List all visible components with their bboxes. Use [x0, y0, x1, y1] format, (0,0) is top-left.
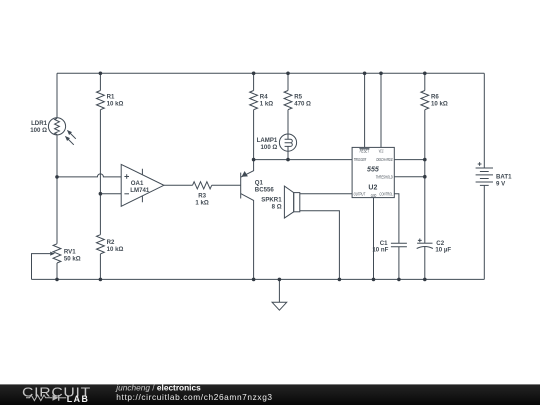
- speaker SPKR1: [261, 186, 300, 218]
- wire R5 bottom to LAMP1: [287, 110, 289, 134]
- svg-text:Q1: Q1: [255, 180, 264, 187]
- wire 555 VCC to top rail: [380, 73, 382, 147]
- svg-text:100 Ω: 100 Ω: [261, 144, 278, 151]
- potentiometer RV1: [50, 244, 81, 263]
- svg-text:1 kΩ: 1 kΩ: [195, 200, 208, 207]
- wire 555 RESET to top rail: [364, 73, 366, 147]
- wire 555 OUTPUT to speaker: [300, 193, 352, 195]
- wire bottom ground rail: [32, 278, 485, 280]
- wire R6 top stub: [424, 73, 426, 90]
- wire R2 bottom stub: [99, 254, 101, 280]
- svg-text:10 kΩ: 10 kΩ: [431, 101, 448, 108]
- svg-text:RV1: RV1: [64, 248, 76, 255]
- svg-text:50 kΩ: 50 kΩ: [64, 255, 81, 262]
- svg-text:LDR1: LDR1: [31, 120, 48, 127]
- wire speaker return to bottom rail: [300, 211, 340, 280]
- svg-text:8 Ω: 8 Ω: [272, 204, 282, 211]
- svg-text:BAT1: BAT1: [496, 173, 512, 180]
- wire 555 DISCHARGE to R6 node: [394, 159, 425, 161]
- svg-text:9 V: 9 V: [496, 180, 506, 187]
- svg-text:LM741: LM741: [130, 187, 150, 194]
- svg-text:R4: R4: [260, 94, 268, 101]
- capacitor C1: [372, 240, 407, 254]
- lamp LAMP1: [257, 134, 297, 151]
- wire 555 CONTROL to C1: [394, 194, 399, 244]
- svg-text:DISCHARGE: DISCHARGE: [376, 157, 393, 162]
- svg-text:THRESHOLD: THRESHOLD: [376, 174, 394, 179]
- CircuitLab logo: [22, 384, 91, 404]
- svg-text:LAMP1: LAMP1: [257, 137, 278, 144]
- resistor R1: [97, 91, 124, 110]
- wire LDR1 top: [56, 73, 58, 117]
- capacitor C2 (polarized): [417, 239, 452, 254]
- svg-text:LAB: LAB: [67, 394, 90, 404]
- svg-text:OUTPUT: OUTPUT: [354, 191, 366, 196]
- wire RV1 wiper to bottom rail: [32, 254, 51, 280]
- wire trigger net (emitter/lamp to 555 TRIGGER): [254, 159, 353, 161]
- wire R6 bottom through discharge/threshold to C2: [424, 110, 426, 244]
- svg-text:http://circuitlab.com/ch26amn7: http://circuitlab.com/ch26amn7nzxg3: [116, 392, 272, 402]
- wire R3 to Q1 base: [212, 184, 241, 186]
- svg-text:R2: R2: [107, 239, 115, 246]
- battery BAT1: [476, 162, 512, 187]
- wire RV1 bottom stub: [56, 263, 58, 279]
- wire C1 bottom to rail: [398, 247, 400, 280]
- wire non-inverting input (with hop over R1-R2 wire): [57, 174, 121, 177]
- svg-text:10 kΩ: 10 kΩ: [107, 246, 124, 253]
- wire 555 THRESHOLD to R6 node: [394, 176, 425, 178]
- svg-text:juncheng / electronics: juncheng / electronics: [115, 382, 201, 392]
- svg-text:555: 555: [367, 166, 379, 173]
- svg-text:100 Ω: 100 Ω: [30, 127, 47, 134]
- svg-text:R6: R6: [431, 94, 439, 101]
- resistor R5: [284, 91, 311, 110]
- svg-text:CONTROL: CONTROL: [379, 191, 393, 196]
- wire R1 top stub: [99, 73, 101, 90]
- svg-text:10 µF: 10 µF: [435, 247, 451, 254]
- IC U2 555 timer: [352, 147, 394, 198]
- wire R5 top stub: [287, 73, 289, 90]
- svg-text:R1: R1: [107, 94, 115, 101]
- wire battery positive drop: [483, 73, 485, 168]
- wire top rail (V+ net): [57, 72, 484, 74]
- svg-text:1 kΩ: 1 kΩ: [260, 101, 273, 108]
- svg-text:VCC: VCC: [379, 149, 384, 154]
- wire C2 bottom to rail: [424, 247, 426, 280]
- wire R4 top stub: [253, 73, 255, 90]
- wire 555 GND to bottom rail: [373, 198, 375, 280]
- resistor R2: [97, 235, 124, 254]
- svg-text:BC556: BC556: [255, 187, 275, 194]
- wire R4 bottom to emitter node: [253, 110, 255, 160]
- wire LAMP1 bottom: [287, 151, 289, 159]
- resistor R6: [421, 91, 448, 110]
- svg-text:RESET: RESET: [360, 149, 370, 154]
- svg-text:10 nF: 10 nF: [372, 247, 388, 254]
- svg-text:470 Ω: 470 Ω: [294, 101, 311, 108]
- svg-text:R5: R5: [294, 94, 302, 101]
- resistor R4: [250, 91, 274, 110]
- resistor R3: [193, 182, 212, 207]
- wire R1 bottom to R2 top: [99, 110, 101, 235]
- wire op-amp output to R3: [164, 184, 193, 186]
- svg-text:U2: U2: [368, 184, 377, 191]
- wire LDR1 bottom to RV1 top: [56, 135, 58, 244]
- photoresistor LDR1: [30, 118, 76, 145]
- svg-text:SPKR1: SPKR1: [261, 197, 282, 204]
- svg-text:GND: GND: [371, 193, 377, 198]
- svg-text:R3: R3: [198, 193, 206, 200]
- wire battery negative drop: [483, 185, 485, 279]
- svg-text:10 kΩ: 10 kΩ: [107, 101, 124, 108]
- op-amp OA1 LM741: [121, 164, 164, 206]
- svg-text:TRIGGER: TRIGGER: [354, 157, 367, 162]
- ground: [272, 279, 287, 310]
- transistor Q1 BC556 (PNP): [241, 160, 275, 280]
- wire inverting input: [100, 193, 121, 195]
